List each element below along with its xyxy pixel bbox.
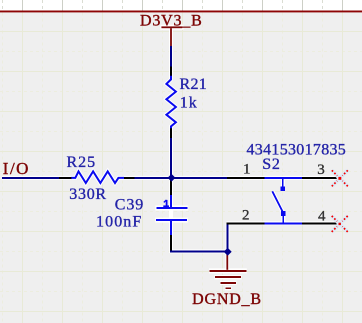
svg-text:1: 1 [243, 161, 251, 177]
svg-text:1k: 1k [180, 95, 198, 112]
svg-text:R25: R25 [67, 154, 97, 171]
svg-text:3: 3 [317, 162, 325, 178]
svg-text:S2: S2 [262, 156, 280, 173]
svg-text:2: 2 [242, 207, 250, 223]
svg-text:C39: C39 [115, 197, 144, 214]
svg-text:I/O: I/O [3, 159, 30, 178]
svg-text:4: 4 [318, 209, 326, 225]
svg-text:330R: 330R [69, 186, 106, 203]
svg-text:100nF: 100nF [96, 214, 142, 231]
svg-text:R21: R21 [180, 76, 208, 93]
svg-text:DGND_B: DGND_B [192, 291, 262, 308]
